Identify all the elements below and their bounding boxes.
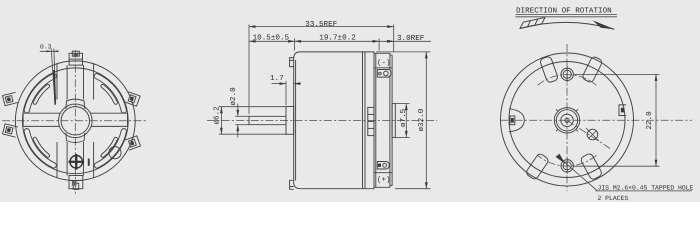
svg-text:0.3: 0.3: [40, 44, 52, 51]
front view arm end caps: [22, 113, 24, 126]
front view small tick right of target: [88, 159, 90, 166]
front view right mounting ear lower: [125, 136, 140, 150]
rear view centerline horizontal: [500, 119, 692, 121]
front view hub outer circle: [59, 104, 93, 138]
front face lug top: [290, 58, 294, 67]
side view centerline: [207, 120, 437, 122]
rear view diagonal centerline: [567, 120, 610, 148]
rear boss (o7.5): [392, 104, 395, 138]
front view centerline vertical: [74, 50, 76, 196]
endbell lip: [390, 55, 392, 185]
svg-text:19.7±0.2: 19.7±0.2: [319, 34, 356, 43]
rear tapped hole top: [561, 66, 573, 83]
rear view outer circle: [501, 53, 634, 186]
front face lug bottom: [290, 180, 294, 189]
front view small hole lower-right: [109, 147, 121, 159]
shaft (o2.0): [249, 116, 286, 124]
dimension 0.3 (front view): [40, 44, 59, 105]
svg-text:2 PLACES: 2 PLACES: [598, 195, 629, 202]
terminal (-) top: [377, 70, 391, 78]
front view top tab: [69, 51, 82, 65]
front view hub ear bottom: [66, 133, 85, 142]
dim 3.0REF: [387, 34, 425, 43]
front view neck lines: [66, 65, 68, 100]
leader line for tapped hole note: [558, 157, 598, 191]
endbell platform lines: [374, 67, 392, 69]
front view quadrant slots: [94, 129, 126, 168]
svg-text:33.5REF: 33.5REF: [305, 20, 337, 29]
front view hub ear top: [66, 99, 85, 108]
front view centerline horizontal: [2, 120, 148, 122]
rear view bolt-circle arcs: [538, 75, 597, 86]
motor can body: [294, 52, 374, 189]
svg-text:3.0REF: 3.0REF: [397, 34, 425, 43]
rear vent slot top-left: [539, 56, 558, 83]
svg-text:ø7.5: ø7.5: [400, 108, 408, 127]
rear tapped hole bottom: [561, 157, 573, 174]
dim o6.2 (boss dia): [212, 106, 286, 134]
front view inner rim circle: [22, 68, 128, 174]
front view cross arm horizontal lines: [23, 112, 60, 114]
rear small marker circle on diagonal: [586, 128, 599, 141]
rear boss 45-degree ticks: [576, 129, 578, 131]
front view left mounting ear lower: [3, 124, 19, 137]
ext line can rear: [378, 39, 380, 51]
front view target symbol (bold circle-cross): [69, 154, 85, 170]
rear right tab: [619, 105, 626, 116]
dim 33.5REF: [249, 20, 394, 29]
rear view centerline vertical: [566, 44, 568, 191]
dim 10.5+-0.5: [249, 34, 295, 43]
rear view rim circle: [509, 62, 625, 178]
rotation arrow: [520, 17, 615, 29]
front view left mounting ear upper: [3, 92, 19, 105]
dim 22.0: [574, 74, 660, 166]
front view vertical band lines: [56, 64, 58, 100]
svg-text:ø6.2: ø6.2: [212, 106, 221, 125]
ext line can front face (top): [294, 39, 296, 51]
ext line shaft tip: [248, 25, 250, 115]
rear vent slot bottom-right: [580, 153, 603, 181]
dim o2.0 (shaft dia): [229, 87, 249, 138]
dim o7.5 (rear boss dia): [395, 104, 409, 138]
can ribs: [362, 52, 364, 189]
svg-text:(+): (+): [377, 175, 391, 184]
front view right mounting ear upper: [125, 92, 140, 106]
rear vent slot bottom-left: [525, 153, 549, 181]
rear center boss circles: [554, 108, 579, 133]
dim 1.7 (boss length): [270, 75, 301, 105]
front view outer circle (motor flange): [15, 61, 135, 181]
front view hub inner circle: [61, 107, 89, 135]
rear vent slot top-right: [582, 56, 603, 84]
svg-text:10.5±0.5: 10.5±0.5: [253, 34, 290, 43]
front view bottom tab: [69, 176, 83, 190]
brush stack: [368, 107, 374, 135]
direction of rotation label: [516, 7, 618, 17]
dim 19.7+-0.2: [295, 34, 380, 43]
svg-text:ø2.0: ø2.0: [229, 87, 238, 106]
endbell: [374, 53, 390, 187]
svg-text:(-): (-): [377, 58, 391, 67]
dim o32.0 (body dia): [376, 52, 431, 189]
note JIS tapped hole: [596, 185, 694, 202]
terminal (+) bottom: [377, 162, 389, 170]
rear left tab: [509, 109, 525, 132]
bearing boss (o6.2): [286, 107, 294, 135]
svg-text:22.0: 22.0: [645, 111, 654, 130]
svg-text:1.7: 1.7: [270, 75, 284, 83]
svg-text:ø32.0: ø32.0: [417, 108, 426, 131]
dim row 2 line: [249, 40, 431, 42]
ext line endbell rear: [393, 25, 395, 53]
